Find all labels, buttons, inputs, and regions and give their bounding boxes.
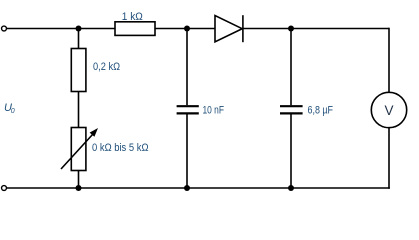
terminal bottom-left	[2, 186, 7, 191]
wire C1 branch lower	[186, 114, 188, 188]
capacitor C2 6,8 uF	[280, 106, 303, 113]
svg-text:1 kΩ: 1 kΩ	[122, 11, 143, 23]
svg-text:6,8 µF: 6,8 µF	[308, 104, 334, 116]
wire right branch lower	[388, 128, 390, 189]
terminal top-left	[2, 26, 7, 31]
voltmeter V	[371, 92, 406, 127]
svg-text:0: 0	[11, 108, 15, 115]
potentiometer R2 0..5 kOhm	[61, 128, 98, 171]
svg-text:V: V	[384, 103, 393, 118]
wire top rail: terminal to R3	[7, 28, 115, 30]
svg-text:10 nF: 10 nF	[203, 104, 225, 116]
wire C2 branch upper	[290, 29, 292, 106]
resistor R1 0,2 kOhm	[71, 49, 86, 92]
wire top rail: R3 to diode	[155, 28, 215, 30]
node A bottom	[76, 185, 82, 191]
label U0 source voltage	[4, 102, 15, 115]
wire left branch: R2 to bottom rail	[78, 171, 80, 189]
wire bottom rail	[7, 187, 390, 189]
resistor R3 1 kOhm (top horizontal)	[115, 22, 155, 36]
wire top rail: diode to top-right corner	[243, 28, 389, 30]
wire C2 branch lower	[290, 114, 292, 188]
node B top (C1 branch)	[184, 26, 190, 32]
wire right branch upper	[388, 28, 390, 93]
node A top (left branch)	[76, 26, 82, 32]
wire left branch: top rail to R1	[78, 29, 80, 49]
capacitor C1 10 nF	[177, 106, 199, 113]
node C bottom	[288, 185, 294, 191]
node B bottom	[184, 185, 190, 191]
wire left branch: R1 to R2	[78, 92, 80, 128]
node C top (C2 branch)	[288, 26, 294, 32]
svg-text:0,2 kΩ: 0,2 kΩ	[93, 61, 120, 73]
diode D1	[215, 15, 243, 42]
wire C1 branch upper	[186, 29, 188, 106]
svg-text:0 kΩ bis 5 kΩ: 0 kΩ bis 5 kΩ	[92, 142, 149, 154]
